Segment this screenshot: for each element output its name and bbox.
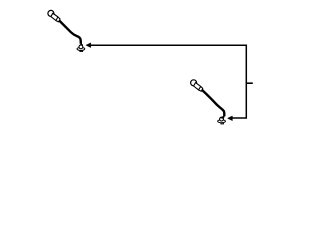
socket G2 [218, 116, 226, 124]
wire W2 from bulb B2 to socket G2 [202, 90, 224, 116]
socket G1 [77, 44, 85, 52]
leader bracket line (from arrow 1 right, down, left to arrow 2) [91, 45, 247, 118]
arrowhead 1 (points left at socket G1) [86, 43, 91, 48]
bulb B2 (glass envelope and base) [191, 80, 203, 92]
callout tick on bracket [246, 82, 253, 84]
arrowhead 2 (points left at socket G2) [228, 116, 233, 121]
wire W1 from bulb B1 to socket G1 [59, 21, 81, 44]
bulb B1 (glass envelope and base) [48, 10, 60, 22]
